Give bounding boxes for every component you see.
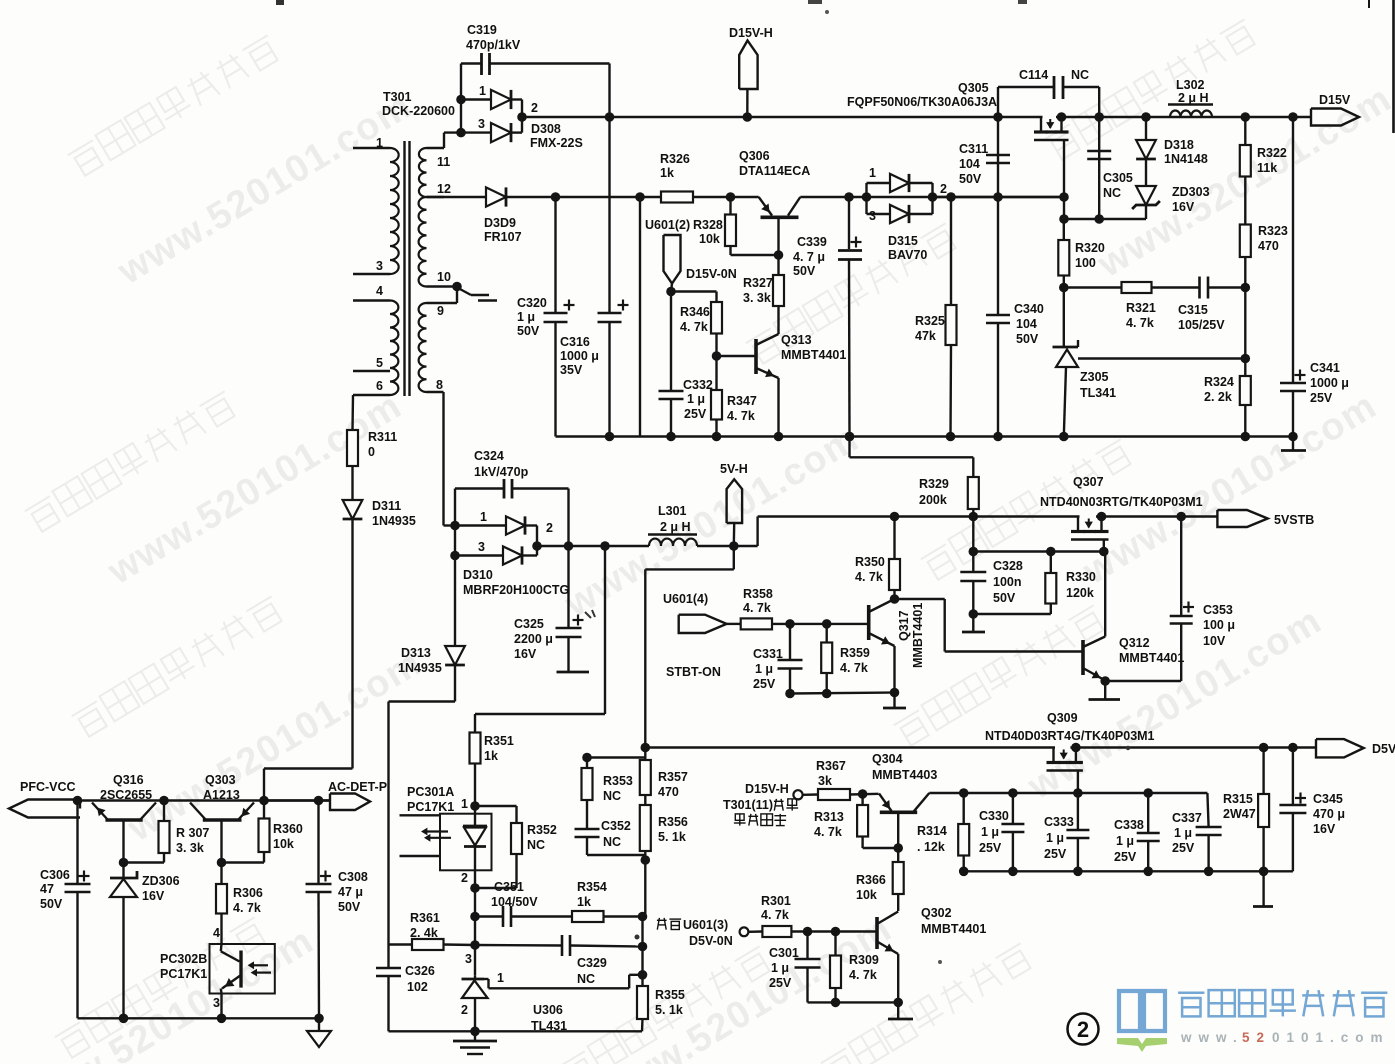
node line-R314: [959, 788, 969, 798]
svg-text:1k: 1k: [577, 895, 591, 909]
wire pin 11 to D308 node: [443, 133, 445, 148]
capacitor C315: [1198, 277, 1201, 299]
label from U601(3): [657, 918, 681, 930]
wire Q317 emitter rail: [790, 693, 895, 694]
capacitor C337: [1207, 793, 1208, 827]
wire U306 ref: [489, 987, 630, 989]
svg-text:D15V: D15V: [1319, 93, 1351, 107]
node Q302e: [893, 998, 903, 1008]
resistor R359: [826, 624, 828, 643]
page number 2: [1068, 1014, 1099, 1045]
wire to R301: [748, 930, 762, 933]
svg-text:R324: R324: [1204, 375, 1234, 389]
shunt U306 TL431: [474, 975, 476, 979]
svg-text:Q313: Q313: [781, 333, 812, 347]
wire gate node line: [1064, 218, 1146, 220]
svg-text:U601(2): U601(2): [645, 218, 690, 232]
svg-text:1 μ: 1 μ: [687, 392, 705, 406]
svg-text:16V: 16V: [514, 647, 537, 661]
svg-text:C345: C345: [1313, 792, 1343, 806]
svg-text:NC: NC: [1103, 186, 1121, 200]
wire D310 anodes: [450, 521, 460, 531]
svg-text:104: 104: [1016, 317, 1037, 331]
svg-text:1 μ: 1 μ: [1046, 831, 1064, 845]
diode D309: [486, 187, 506, 206]
node Q317e: [890, 688, 900, 698]
resistor R321: [1122, 282, 1152, 293]
svg-text:R355: R355: [655, 988, 685, 1002]
svg-text:3: 3: [478, 117, 485, 131]
inductor L302: [1170, 110, 1212, 117]
svg-text:1k: 1k: [660, 166, 674, 180]
mosfet Q309: [1055, 745, 1070, 749]
resistor R354: [572, 911, 604, 922]
node bl-PC302: [217, 1014, 227, 1024]
node C305 bot: [1094, 214, 1104, 224]
node C351 line: [470, 912, 480, 922]
svg-text:Q316: Q316: [113, 773, 144, 787]
label rectifier output: [734, 814, 786, 826]
ground C328 node: [972, 614, 974, 632]
svg-text:3. 3k: 3. 3k: [743, 291, 771, 305]
node rail-Q305d: [1057, 112, 1067, 122]
svg-text:ZD306: ZD306: [142, 874, 180, 888]
optocoupler PC301A box: [440, 814, 492, 871]
wire C319 loop: [460, 64, 462, 100]
mosfet Q305: [1043, 115, 1057, 119]
svg-text:U601(4): U601(4): [663, 592, 708, 606]
ground earth U306: [474, 1031, 476, 1041]
svg-text:MMBT4401: MMBT4401: [911, 603, 925, 668]
node C333 top: [1073, 788, 1083, 798]
svg-text:C351: C351: [494, 880, 524, 894]
terminal circle D15V-H: [793, 790, 802, 799]
svg-text:1 μ: 1 μ: [771, 961, 789, 975]
capacitor C324 loop: [454, 489, 456, 526]
node C329-right: [638, 942, 648, 952]
svg-text:1 μ: 1 μ: [755, 662, 773, 676]
node gate-219: [1059, 214, 1069, 224]
svg-text:35V: 35V: [560, 363, 583, 377]
svg-text:8: 8: [436, 378, 443, 392]
wire C328 gate line: [973, 550, 1104, 552]
svg-text:4. 7k: 4. 7k: [849, 968, 877, 982]
svg-text:4. 7k: 4. 7k: [743, 601, 771, 615]
wire to R367: [803, 793, 818, 796]
node rail-D318: [1141, 112, 1151, 122]
wire Q303 rail to ACDET: [264, 799, 330, 801]
svg-text:Q304: Q304: [872, 752, 903, 766]
resistor R366: [897, 848, 899, 862]
capacitor C308: [317, 801, 319, 885]
node D308 pin2: [517, 112, 527, 122]
node x640 tap: [635, 192, 645, 202]
node R359 top: [822, 619, 832, 629]
svg-text:4: 4: [376, 284, 383, 298]
svg-text:PC17K1: PC17K1: [407, 800, 454, 814]
svg-text:PFC-VCC: PFC-VCC: [20, 780, 76, 794]
resistor R306: [220, 863, 222, 885]
svg-text:R347: R347: [727, 394, 757, 408]
svg-text:www.: www.: [1180, 1030, 1244, 1045]
wire PC302 emitter: [220, 994, 222, 1019]
connector U601(2): [664, 235, 681, 284]
node rail-C316: [605, 112, 615, 122]
resistor R307: [163, 801, 165, 822]
svg-text:2. 4k: 2. 4k: [410, 926, 438, 940]
svg-text:R354: R354: [577, 880, 607, 894]
wire D308 cathodes to pin2: [511, 98, 522, 100]
node rail-C311: [993, 112, 1003, 122]
wire R321 line: [1064, 286, 1122, 288]
svg-text:1000 μ: 1000 μ: [560, 349, 599, 363]
svg-text:0: 0: [368, 445, 375, 459]
ground Q302: [897, 1002, 899, 1019]
svg-text:3: 3: [465, 952, 472, 966]
svg-text:C339: C339: [797, 235, 827, 249]
resistor R330: [1050, 552, 1052, 574]
ground Q317: [893, 693, 895, 709]
wire Q302 bottom rail: [808, 1001, 899, 1003]
shunt Z305: [1063, 288, 1065, 348]
svg-text:5. 1k: 5. 1k: [655, 1003, 683, 1017]
svg-text:2. 2k: 2. 2k: [1204, 390, 1232, 404]
capacitor C338: [1147, 793, 1149, 833]
optocoupler PC301A rails: [400, 814, 441, 816]
svg-text:C306: C306: [40, 868, 70, 882]
wire Z305 ref: [1078, 357, 1245, 359]
svg-text:R311: R311: [368, 430, 397, 444]
svg-text:C331: C331: [753, 647, 783, 661]
svg-text:470 μ: 470 μ: [1313, 807, 1345, 821]
svg-text:NC: NC: [603, 789, 621, 803]
svg-text:R309: R309: [849, 953, 879, 967]
svg-text:1N4935: 1N4935: [372, 514, 416, 528]
wire R329 to C328 node: [972, 517, 974, 552]
connector 5V-H: [727, 479, 743, 523]
svg-text:50V: 50V: [793, 264, 816, 278]
svg-text:D315: D315: [888, 234, 918, 248]
node rail-R322: [1241, 112, 1251, 122]
resistor R350: [893, 517, 895, 560]
svg-text:D310: D310: [463, 568, 493, 582]
connector AC-DET-P: [330, 794, 370, 811]
capacitor C114: [997, 87, 999, 117]
wire L301 out: [697, 545, 758, 547]
node C353 top: [1176, 512, 1186, 522]
node gnd-C316: [605, 432, 615, 442]
svg-text:AC-DET-P: AC-DET-P: [328, 780, 387, 794]
svg-text:FR107: FR107: [484, 230, 522, 244]
node C331 bot: [785, 689, 795, 699]
svg-text:C326: C326: [405, 964, 435, 978]
node bl-ZD306: [119, 1014, 129, 1024]
svg-text:104: 104: [959, 157, 980, 171]
svg-text:1: 1: [461, 797, 468, 811]
svg-text:R346: R346: [680, 305, 710, 319]
svg-text:5V-H: 5V-H: [720, 462, 748, 476]
capacitor C306: [76, 801, 78, 885]
scan speck 8: [938, 960, 942, 964]
scan speck 6: [1126, 746, 1130, 750]
node ref-R324: [1241, 354, 1251, 364]
capacitor C326: [387, 945, 389, 969]
node Q312 emitter: [1100, 676, 1110, 686]
wire R361 line: [389, 943, 413, 945]
svg-text:Q305: Q305: [958, 81, 989, 95]
svg-text:TL341: TL341: [1080, 386, 1116, 400]
capacitor C319: [480, 53, 483, 75]
svg-text:R356: R356: [658, 815, 688, 829]
svg-text:R323: R323: [1258, 224, 1288, 238]
optocoupler PC302B light arrows: [252, 964, 268, 966]
svg-text:D318: D318: [1164, 138, 1194, 152]
svg-text:D311: D311: [372, 499, 401, 513]
node R307 top: [159, 796, 169, 806]
node C331 top: [785, 619, 795, 629]
svg-text:4. 7k: 4. 7k: [727, 409, 755, 423]
svg-text:R367: R367: [816, 759, 846, 773]
node R323 bot: [1241, 283, 1251, 293]
svg-text:1 μ: 1 μ: [517, 310, 535, 324]
capacitor C333: [1077, 793, 1079, 830]
node rail-D15VH: [743, 112, 753, 122]
svg-text:. 12k: . 12k: [917, 840, 945, 854]
svg-text:10k: 10k: [699, 232, 720, 246]
logo 520101.com: [1119, 989, 1165, 1033]
svg-text:5. 1k: 5. 1k: [658, 830, 686, 844]
svg-text:2: 2: [531, 101, 538, 115]
zener ZD303: [1136, 186, 1156, 205]
svg-text:C338: C338: [1114, 818, 1144, 832]
diode D315-1: [890, 174, 909, 192]
svg-text:D5V: D5V: [1372, 742, 1395, 756]
node gnd-C340: [993, 432, 1003, 442]
optocoupler PC302B box: [210, 944, 275, 994]
node C306 top: [73, 796, 83, 806]
scan speck 1: [276, 0, 284, 5]
svg-text:L302: L302: [1176, 78, 1205, 92]
svg-text:3: 3: [869, 209, 876, 223]
svg-text:50V: 50V: [1016, 332, 1039, 346]
wire bottom-left rail: [78, 1017, 320, 1019]
svg-text:C333: C333: [1044, 815, 1074, 829]
scan speck 3: [1018, 0, 1027, 4]
node D315 pin2: [928, 192, 938, 202]
svg-text:50V: 50V: [959, 172, 982, 186]
resistor R324: [1244, 359, 1246, 377]
resistor R360: [263, 801, 265, 819]
capacitor C331: [789, 624, 791, 660]
svg-text:Q317: Q317: [897, 610, 911, 641]
node x605 tap: [600, 541, 610, 551]
svg-text:470p/1kV: 470p/1kV: [466, 38, 521, 52]
diode D308-2: [491, 123, 511, 142]
node R325 top: [946, 192, 956, 202]
transformer T301 secondary winding 12-10: [419, 197, 427, 287]
diode D315-3: [890, 205, 909, 223]
svg-text:Q303: Q303: [205, 773, 236, 787]
node R329-line: [969, 512, 979, 522]
transistor Q312: [1081, 640, 1085, 675]
wire 5V to D5V rail: [733, 546, 735, 569]
capacitor C332: [659, 390, 684, 393]
connector U601(4): [679, 615, 727, 633]
svg-text:R350: R350: [855, 555, 885, 569]
svg-text:1: 1: [479, 84, 486, 98]
resistor R347: [715, 356, 717, 390]
wire fb vertical: [641, 917, 643, 975]
capacitor C311: [997, 117, 999, 197]
svg-text:D308: D308: [531, 122, 561, 136]
svg-text:4. 7k: 4. 7k: [814, 825, 842, 839]
node U601(2) out: [666, 287, 676, 297]
wire R301 out: [791, 930, 877, 932]
svg-text:PC301A: PC301A: [407, 785, 454, 799]
svg-text:R360: R360: [273, 822, 303, 836]
svg-text:120k: 120k: [1066, 586, 1094, 600]
svg-text:52: 52: [1242, 1030, 1271, 1045]
svg-text:11k: 11k: [1257, 161, 1277, 175]
node pin10 junction: [452, 282, 462, 292]
ground triangle: [318, 1018, 320, 1031]
svg-text:T301: T301: [383, 90, 412, 104]
svg-text:4. 7 μ: 4. 7 μ: [793, 250, 825, 264]
svg-text:1000 μ: 1000 μ: [1310, 376, 1349, 390]
wire R353 top bar: [587, 756, 645, 758]
svg-text:10: 10: [437, 270, 451, 284]
connector D5V: [1316, 739, 1364, 757]
svg-text:NC: NC: [527, 838, 545, 852]
svg-text:C316: C316: [560, 335, 590, 349]
wire Q307 gate lead: [1103, 540, 1105, 552]
wire D15V rail: [522, 116, 1311, 118]
resistor R352 parallel: [475, 805, 517, 807]
node R361 line: [470, 940, 480, 950]
node Q303 base: [217, 858, 227, 868]
svg-text:5VSTB: 5VSTB: [1274, 513, 1314, 527]
transformer T301 secondary winding 9-8: [419, 303, 427, 392]
wire D5V rail: [645, 746, 1316, 748]
svg-text:PC17K1: PC17K1: [160, 967, 207, 981]
node C301 top: [803, 927, 813, 937]
svg-text:25V: 25V: [1172, 841, 1195, 855]
node D308 anode3: [456, 128, 466, 138]
capacitor C316: [608, 117, 610, 313]
resistor R311: [347, 430, 358, 466]
svg-text:Q302: Q302: [921, 906, 952, 920]
svg-text:47k: 47k: [915, 329, 936, 343]
svg-text:R326: R326: [660, 152, 690, 166]
svg-text:104/50V: 104/50V: [491, 895, 538, 909]
svg-text:NTD40D03RT4G/TK40P03M1: NTD40D03RT4G/TK40P03M1: [985, 729, 1155, 743]
node gnd-R324: [1241, 432, 1251, 442]
svg-text:4. 7k: 4. 7k: [680, 320, 708, 334]
wire C329 line: [475, 944, 562, 947]
connector D15V-H: [739, 41, 757, 90]
svg-text:10k: 10k: [856, 888, 877, 902]
svg-text:0101.com: 0101.com: [1272, 1030, 1390, 1045]
svg-text:1 μ: 1 μ: [1116, 834, 1134, 848]
svg-text:C324: C324: [474, 449, 504, 463]
resistor R326: [661, 192, 693, 203]
svg-text:R351: R351: [484, 734, 514, 748]
node D5V-R357: [641, 743, 651, 753]
node C324 tap: [564, 541, 574, 551]
resistor R315: [1262, 748, 1264, 795]
svg-text:U306: U306: [533, 1003, 563, 1017]
svg-text:100: 100: [1075, 256, 1096, 270]
optocoupler PC301A light arrows: [426, 830, 448, 832]
wire 5VSTB line: [758, 515, 1218, 517]
wire D308 anodes: [460, 100, 462, 133]
capacitor C339: [844, 192, 854, 202]
transformer T301 secondary winding 11-12: [427, 147, 445, 149]
capacitor C320: [554, 197, 556, 313]
wire 12V line right: [800, 196, 1064, 198]
svg-text:25V: 25V: [979, 841, 1002, 855]
node C345 top: [1288, 743, 1298, 753]
scan speck 2: [808, 0, 822, 4]
svg-text:D15V-H: D15V-H: [729, 26, 773, 40]
svg-text:2: 2: [461, 871, 468, 885]
transistor Q303: [203, 818, 242, 822]
svg-text:MMBT4403: MMBT4403: [872, 768, 937, 782]
svg-text:3. 3k: 3. 3k: [176, 841, 204, 855]
svg-text:R361: R361: [410, 911, 440, 925]
node R350 top: [890, 512, 900, 522]
svg-text:R306: R306: [233, 886, 263, 900]
svg-text:2: 2: [1077, 1017, 1089, 1042]
svg-text:1k: 1k: [484, 749, 498, 763]
capacitor C352: [575, 828, 600, 831]
svg-text:25V: 25V: [1310, 391, 1333, 405]
transistor Q304: [880, 810, 917, 814]
svg-text:C341: C341: [1310, 361, 1340, 375]
resistor R351: [470, 733, 481, 764]
svg-text:1kV/470p: 1kV/470p: [474, 465, 529, 479]
svg-text:6: 6: [376, 379, 383, 393]
node gnd-C339: [845, 432, 855, 442]
node R359 bot: [822, 689, 832, 699]
svg-text:BAV70: BAV70: [888, 248, 927, 262]
node gnd-Z305: [1059, 432, 1069, 442]
node Q303 emitter rail: [259, 796, 269, 806]
svg-text:D15V-0N: D15V-0N: [686, 267, 737, 281]
capacitor C330: [1012, 793, 1014, 824]
wire L301 line: [537, 545, 649, 547]
node PC301 pin2: [470, 883, 480, 893]
svg-text:2 μ H: 2 μ H: [1178, 91, 1209, 105]
svg-text:1N4935: 1N4935: [398, 661, 442, 675]
transistor Q302: [875, 917, 879, 949]
wire Q317c to Q312b: [895, 598, 945, 600]
node Q316 base: [119, 858, 129, 868]
wire ground rail: [556, 435, 1294, 437]
diode D318: [1145, 117, 1147, 140]
svg-text:R322: R322: [1257, 146, 1287, 160]
wire 12V line: [506, 196, 759, 198]
svg-text:4. 7k: 4. 7k: [233, 901, 261, 915]
wire D310 cathodes: [525, 524, 537, 526]
svg-text:2 μ H: 2 μ H: [660, 520, 691, 534]
svg-text:470: 470: [658, 785, 679, 799]
node gnd-R347: [712, 432, 722, 442]
node R356 bot: [641, 855, 651, 865]
resistor R357: [644, 748, 646, 761]
svg-text:10V: 10V: [1203, 634, 1226, 648]
node U306 anode gnd: [470, 1027, 480, 1037]
